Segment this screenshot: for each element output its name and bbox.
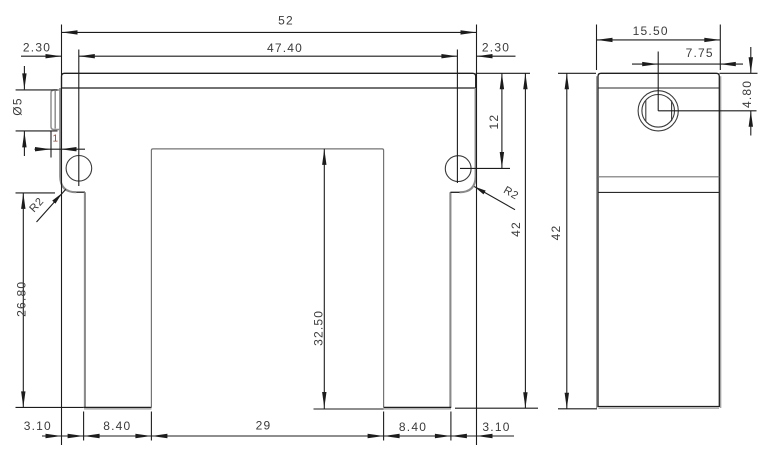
dimension 1 (tab) (35, 132, 86, 158)
svg-text:29: 29 (256, 419, 272, 433)
svg-text:3.10: 3.10 (24, 419, 52, 433)
dimension 42 (side view) (549, 73, 569, 409)
svg-text:42: 42 (509, 221, 523, 237)
dimension 29 (151, 419, 383, 439)
svg-text:12: 12 (487, 114, 501, 130)
top bar (front view) (62, 73, 476, 88)
hole center lines (658, 52, 756, 111)
dimension 7.75 (632, 46, 743, 66)
R2 leader (left) (27, 189, 65, 222)
dimension Ø5 (11, 66, 58, 156)
dimension 2.30 left (21, 41, 62, 59)
dimension 42 (front view) (509, 73, 528, 408)
left foot (84, 192, 152, 409)
svg-text:2.30: 2.30 (23, 41, 51, 55)
dimension 2.30 right (477, 41, 516, 59)
svg-text:47.40: 47.40 (267, 41, 303, 55)
right leg upper edge with R2 fillet (450, 88, 475, 192)
left leg upper edge with R2 fillet (60, 88, 85, 192)
dimension 32.50 (311, 149, 383, 409)
left curl circle (66, 156, 92, 182)
extension line at right edge x=476.5 (476, 25, 478, 446)
dimension 8.40 left (84, 419, 152, 438)
R2 leader (right) (474, 184, 521, 209)
extension line x=457.4 (47.40 right) (456, 50, 458, 184)
side view outline (597, 73, 721, 408)
side view seam line y=192.4 (598, 191, 719, 193)
bottom extension lines (84, 412, 451, 441)
dimension 52 (62, 14, 477, 35)
svg-text:1: 1 (53, 134, 59, 145)
dimension 15.50 (597, 24, 721, 70)
svg-text:8.40: 8.40 (399, 420, 427, 434)
dimension 3.10 right (451, 420, 511, 438)
extension line curl center y=168.4 (460, 167, 510, 169)
svg-text:15.50: 15.50 (633, 24, 669, 38)
side view hole Ø5 (638, 91, 678, 131)
bottom dimension line (42, 435, 514, 437)
dimension 47.40 (79, 41, 458, 59)
svg-text:42: 42 (549, 225, 563, 241)
svg-text:32.50: 32.50 (311, 310, 325, 346)
dimension 26.80 (15, 193, 84, 408)
extension line at left edge x=61.5 (61, 25, 63, 446)
extension lines 42 (side view) (558, 73, 597, 409)
svg-text:3.10: 3.10 (482, 420, 510, 434)
svg-text:Ø5: Ø5 (11, 97, 25, 115)
dimension 3.10 left (24, 419, 84, 438)
central notch (151, 149, 383, 408)
svg-text:4.80: 4.80 (740, 80, 754, 108)
tab boss Ø5 (front view) (51, 90, 60, 130)
extension line bar top to right (476, 72, 530, 74)
side view seam line y=176.8 (598, 176, 719, 178)
svg-text:2.30: 2.30 (482, 41, 510, 55)
svg-text:52: 52 (278, 14, 294, 28)
extension line x=78.8 (47.40 left) (78, 50, 80, 187)
svg-text:7.75: 7.75 (686, 46, 714, 60)
right curl circle (445, 156, 471, 182)
extension line bottom right y=408.2 (455, 407, 538, 409)
dimension 12 (487, 73, 504, 168)
side view bar seam line (598, 87, 719, 89)
svg-text:8.40: 8.40 (103, 419, 131, 433)
dimension 8.40 right (384, 420, 451, 438)
svg-text:26.80: 26.80 (15, 281, 29, 317)
dimension 4.80 (720, 47, 758, 136)
right foot (384, 192, 452, 409)
